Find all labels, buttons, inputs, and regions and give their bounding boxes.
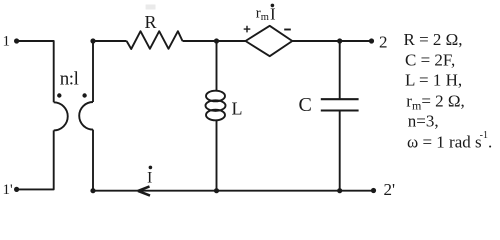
dot above source label i	[271, 4, 275, 8]
inductor L loop 3	[206, 110, 225, 121]
transformer T1 secondary winding arc	[79, 102, 93, 130]
terminal 2 dot	[369, 38, 374, 43]
svg-text:C: C	[299, 94, 312, 116]
wire: dependent source to node B and terminal 2	[292, 40, 371, 42]
terminal 1' dot	[14, 187, 19, 192]
junction node: inductor top	[214, 38, 219, 43]
svg-text:1': 1'	[3, 182, 14, 198]
wire: bottom of primary winding to terminal 1'	[17, 130, 54, 189]
inductor L loop 2	[206, 100, 226, 111]
dependent source U1 diamond	[246, 26, 293, 56]
plus sign of dependent source	[244, 26, 251, 33]
svg-text:2: 2	[379, 33, 388, 52]
junction node: secondary bottom	[90, 188, 95, 193]
capacitor C top plate	[321, 98, 359, 100]
wire: secondary winding bottom lead	[92, 130, 94, 191]
svg-text:I: I	[147, 170, 152, 187]
wire: node B down to capacitor C	[339, 41, 341, 99]
junction node: capacitor bottom	[337, 188, 342, 193]
junction node: capacitor top	[337, 38, 342, 43]
svg-text:n:l: n:l	[60, 69, 79, 90]
wire: secondary winding top lead	[92, 41, 94, 102]
wire: terminal 1 to top of primary winding	[17, 41, 54, 102]
svg-text:n=3,: n=3,	[408, 111, 439, 130]
wire: node A down to inductor L	[216, 41, 218, 91]
svg-text:L: L	[232, 99, 243, 119]
inductor L loop 1	[206, 91, 225, 102]
svg-text:2': 2'	[384, 180, 396, 199]
svg-text:1: 1	[3, 34, 11, 50]
dot above current label i	[149, 166, 153, 170]
wire: bottom rail from secondary to terminal 2'	[93, 190, 374, 192]
capacitor C bottom plate	[321, 109, 359, 111]
resistor R zigzag	[127, 31, 183, 49]
svg-text:L = 1 H,: L = 1 H,	[405, 71, 462, 90]
junction node: secondary top	[90, 38, 95, 43]
wire: resistor R to node A and to dependent source	[183, 40, 246, 42]
junction node: inductor bottom	[214, 188, 219, 193]
svg-text:R: R	[145, 12, 157, 32]
svg-text:R = 2 Ω,: R = 2 Ω,	[404, 30, 463, 49]
transformer T1 primary winding arc	[54, 102, 68, 130]
terminal 2' dot	[371, 188, 376, 193]
current arrow i on bottom rail	[138, 186, 150, 195]
transformer polarity dot primary	[57, 93, 61, 97]
terminal 1 dot	[14, 38, 19, 43]
scan smudge above R	[146, 5, 156, 10]
svg-text:C = 2F,: C = 2F,	[405, 51, 455, 70]
wire: top node to resistor R	[93, 40, 127, 42]
wire: capacitor C to bottom node	[339, 111, 341, 191]
minus sign of dependent source	[284, 29, 291, 31]
wire: inductor L to bottom node	[216, 120, 218, 190]
svg-text:ω = 1 rad s-1.: ω = 1 rad s-1.	[407, 130, 492, 152]
transformer polarity dot secondary	[82, 93, 86, 97]
